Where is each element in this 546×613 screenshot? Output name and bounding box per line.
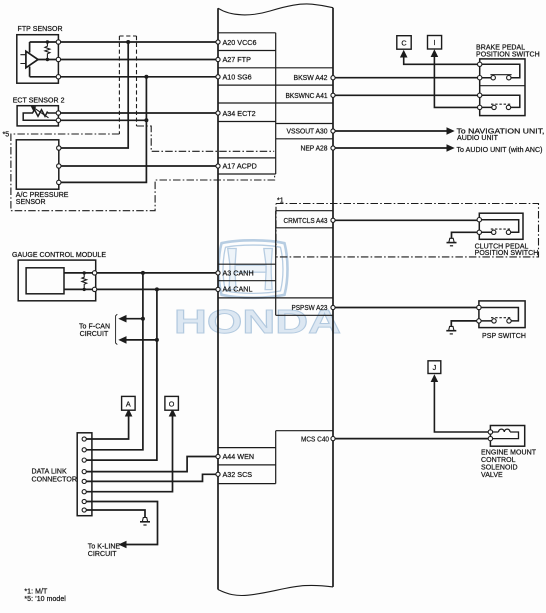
junction dot F-CAN bottom <box>155 338 159 342</box>
FTP sensor box <box>17 35 59 83</box>
op-amp input stubs <box>20 55 26 64</box>
svg-text:PSPSW A23: PSPSW A23 <box>292 303 328 312</box>
dash-dot option line *5 upper run to ECM <box>11 126 275 211</box>
svg-text:POSITION SWITCH: POSITION SWITCH <box>476 51 540 58</box>
DLC pin circles <box>82 437 86 512</box>
ground G DLC <box>140 518 150 526</box>
FTP internal bottom rail <box>30 76 59 78</box>
wire ACPD: A/C sensor to ECM <box>59 165 218 167</box>
svg-text:CONNECTOR: CONNECTOR <box>32 477 77 484</box>
svg-text:BKSW A42: BKSW A42 <box>294 73 328 82</box>
dash-dot option box *1 clutch <box>276 204 539 257</box>
junction dot FTP resistor top <box>46 40 49 43</box>
FTP sensor pin circles <box>56 40 60 79</box>
bracket for F-CAN label <box>116 314 118 344</box>
wire clutch switch to ground <box>452 232 478 238</box>
brake switch compartment separator <box>480 85 525 87</box>
junction dot CANH branch <box>141 271 145 275</box>
connector box C <box>397 36 411 50</box>
junction dot ECT2 ground on SG6 vertical <box>144 118 148 122</box>
junction dot gauge resistor top <box>83 271 86 274</box>
wire brake pin1 to connector C <box>404 56 480 64</box>
thermistor element inside ECT sensor 2 <box>23 110 58 121</box>
svg-text:O: O <box>169 399 175 408</box>
clutch switch contacts <box>492 230 496 234</box>
gauge control module inner box <box>26 268 64 294</box>
svg-text:CIRCUIT: CIRCUIT <box>80 331 109 338</box>
connector box J <box>428 361 441 374</box>
ECM inner cell vertical line upper <box>275 33 277 484</box>
svg-text:VSSOUT A30: VSSOUT A30 <box>287 127 328 136</box>
wire ECT2 signal to ECM <box>58 112 218 114</box>
PSP switch pin circles <box>477 305 481 309</box>
wire SG6: FTP sensor to ECM <box>58 76 218 78</box>
svg-text:A17 ACPD: A17 ACPD <box>223 162 257 171</box>
PSP switch contact wiring <box>479 308 519 321</box>
PSP switch contacts <box>492 319 496 323</box>
gauge module internal wires <box>64 273 95 290</box>
junction dot SG6 branch <box>144 75 148 79</box>
ECM pin circles left <box>216 40 220 477</box>
gauge module pin circles <box>92 271 96 292</box>
wire DLC pin4 to A44 WEN <box>86 457 218 472</box>
ECM cell separator lines left top group <box>218 33 333 174</box>
FTP internal supply wires <box>29 42 31 77</box>
svg-text:A32 SCS: A32 SCS <box>223 470 253 479</box>
svg-text:POSITION SWITCH: POSITION SWITCH <box>475 250 539 257</box>
wire DLC pin8 to ground <box>86 510 145 518</box>
ECM pin circles right <box>331 76 335 441</box>
svg-text:To F-CAN: To F-CAN <box>79 324 110 331</box>
clutch pedal position switch box <box>479 213 523 239</box>
svg-text:To AUDIO UNIT (with ANC): To AUDIO UNIT (with ANC) <box>457 147 543 154</box>
svg-text:C: C <box>401 38 406 47</box>
svg-text:PSP SWITCH: PSP SWITCH <box>482 333 526 340</box>
junction dot gauge resistor bottom <box>83 288 86 291</box>
junction dot CANL branch <box>155 287 159 291</box>
shield dashed line around FTP wiring <box>119 36 136 134</box>
gauge control module outer box <box>18 260 96 301</box>
ECM cell lines CANH CANL PSPSW <box>218 264 333 315</box>
svg-text:*5: ’10 model: *5: ’10 model <box>24 596 66 603</box>
svg-text:FTP SENSOR: FTP SENSOR <box>18 26 63 33</box>
svg-text:I: I <box>434 38 436 47</box>
svg-text:CRMTCLS A43: CRMTCLS A43 <box>284 216 328 225</box>
svg-text:A27 FTP: A27 FTP <box>223 55 252 64</box>
PSP switch lever dashed <box>491 317 512 319</box>
watermark Honda H logo <box>219 240 288 297</box>
ECM cell lines MCS WEN SCS <box>218 431 333 484</box>
wire BKSW A42 to brake switch <box>333 77 480 79</box>
junction dot FTP resistor bottom <box>46 58 49 61</box>
svg-text:A: A <box>126 399 131 408</box>
ECM cell lines CRMTCLS <box>276 211 333 228</box>
svg-text:GAUGE CONTROL MODULE: GAUGE CONTROL MODULE <box>12 252 106 259</box>
wire DLC pin1 to connector A <box>86 415 129 439</box>
svg-text:ENGINE MOUNT: ENGINE MOUNT <box>481 450 537 457</box>
brake switch upper lever <box>490 74 511 76</box>
svg-text:A4 CANL: A4 CANL <box>223 284 253 293</box>
A/C pressure sensor box <box>16 140 59 189</box>
wire brake pin4 to connector I <box>434 56 479 108</box>
svg-text:A44 WEN: A44 WEN <box>223 452 255 461</box>
clutch switch pin circles <box>477 218 481 222</box>
svg-text:CIRCUIT: CIRCUIT <box>88 551 117 558</box>
wire VCC6: FTP sensor to ECM <box>58 41 218 43</box>
svg-text:A3 CANH: A3 CANH <box>223 269 254 278</box>
junction dot F-CAN top <box>141 317 145 321</box>
solenoid valve pin circles <box>488 430 492 434</box>
engine mount control solenoid valve box <box>490 426 524 447</box>
wire CANH vertical to DLC pin2 <box>86 273 143 450</box>
svg-text:AUDIO UNIT: AUDIO UNIT <box>457 135 499 142</box>
op-amp triangle inside FTP sensor <box>26 51 38 68</box>
ECM right edge <box>332 8 334 587</box>
wire PSP switch to ground <box>451 321 476 327</box>
connector box I <box>428 36 442 50</box>
resistor inside gauge module <box>82 273 87 290</box>
svg-text:*1: *1 <box>277 198 284 205</box>
svg-text:CONTROL: CONTROL <box>481 457 516 464</box>
wire DLC pin7 to K-LINE <box>86 502 158 545</box>
wire CANL vertical to DLC pin3 <box>86 289 157 460</box>
wire VCC6 vertical branch to A/C sensor <box>59 42 128 148</box>
svg-text:VALVE: VALVE <box>481 472 503 479</box>
svg-text:SOLENOID: SOLENOID <box>481 465 518 472</box>
wire MCS C40 to solenoid valve <box>333 438 490 440</box>
wire CANL gauge module to ECM <box>97 288 218 290</box>
svg-text:To K-LINE: To K-LINE <box>88 543 121 550</box>
FTP internal top rail <box>30 41 59 43</box>
clutch switch contact wiring <box>479 220 518 233</box>
ECT sensor 2 box <box>17 106 58 126</box>
clutch switch lever dashed <box>491 228 512 230</box>
svg-text:A10 SG6: A10 SG6 <box>223 72 252 81</box>
svg-text:MCS C40: MCS C40 <box>301 435 329 444</box>
svg-text:ECT SENSOR 2: ECT SENSOR 2 <box>13 97 65 104</box>
svg-text:A34 ECT2: A34 ECT2 <box>223 109 256 118</box>
connector box A <box>122 396 136 410</box>
ground G clutch <box>447 238 457 246</box>
ECM left edge <box>217 8 219 589</box>
data link connector box <box>77 433 92 516</box>
FTP internal output wire <box>38 59 58 61</box>
A/C sensor pin circles <box>57 146 61 185</box>
wire NEP A28 arrow <box>333 147 448 149</box>
svg-text:A20 VCC6: A20 VCC6 <box>223 38 257 47</box>
wire F-CAN arrow bottom <box>125 339 157 341</box>
brake switch lower lever dashed <box>491 103 512 105</box>
ECM bottom torn edge <box>218 585 333 595</box>
wire CANH gauge module to ECM <box>97 272 218 274</box>
wire solenoid to connector J <box>434 381 490 433</box>
wire BKSWNC A41 to brake switch <box>333 94 480 96</box>
ECM/PCM main column <box>218 4 333 596</box>
junction dot VCC6 branch <box>126 40 130 44</box>
wire F-CAN arrow top <box>125 318 143 320</box>
resistor R inside FTP sensor <box>45 42 50 60</box>
wire DLC pin6 to connector O <box>86 415 173 492</box>
svg-text:SENSOR: SENSOR <box>16 199 46 206</box>
wire PSPSW A23 to PSP switch <box>333 307 479 309</box>
svg-text:*1: M/T: *1: M/T <box>24 589 48 596</box>
PSP switch box <box>479 301 525 328</box>
svg-text:DATA LINK: DATA LINK <box>32 469 67 476</box>
svg-text:NEP A28: NEP A28 <box>301 144 328 153</box>
wire SG6 vertical branch to A/C sensor <box>59 77 146 183</box>
dash-dot option line *5 left box <box>11 134 275 211</box>
wire VSSOUT A30 arrow <box>333 130 448 132</box>
brake switch pin circles <box>478 62 482 110</box>
brake switch upper contact wiring <box>480 64 520 77</box>
wire DLC pin5 to A32 SCS <box>86 474 218 481</box>
ECT sensor pin circles <box>56 111 60 123</box>
brake switch lower contacts <box>492 105 496 109</box>
svg-text:BKSWNC A41: BKSWNC A41 <box>286 91 328 100</box>
svg-text:*5: *5 <box>3 132 10 139</box>
ECM top torn edge <box>218 4 333 15</box>
ECM cell separator lines right VSSOUT/NEP <box>276 124 333 139</box>
wire FTP: FTP sensor to ECM <box>58 59 218 61</box>
svg-text:J: J <box>433 363 437 372</box>
wire ECT2 ground branch <box>58 119 146 121</box>
wire CRMTCLS A43 to clutch switch <box>333 219 479 221</box>
thermistor arrow <box>33 107 49 118</box>
brake switch upper contacts <box>491 76 495 80</box>
brake pedal position switch box <box>480 59 525 116</box>
ground G PSP <box>446 326 456 334</box>
solenoid coil <box>490 429 518 439</box>
connector box O <box>165 396 179 410</box>
brake switch lower contact wiring <box>480 95 520 107</box>
